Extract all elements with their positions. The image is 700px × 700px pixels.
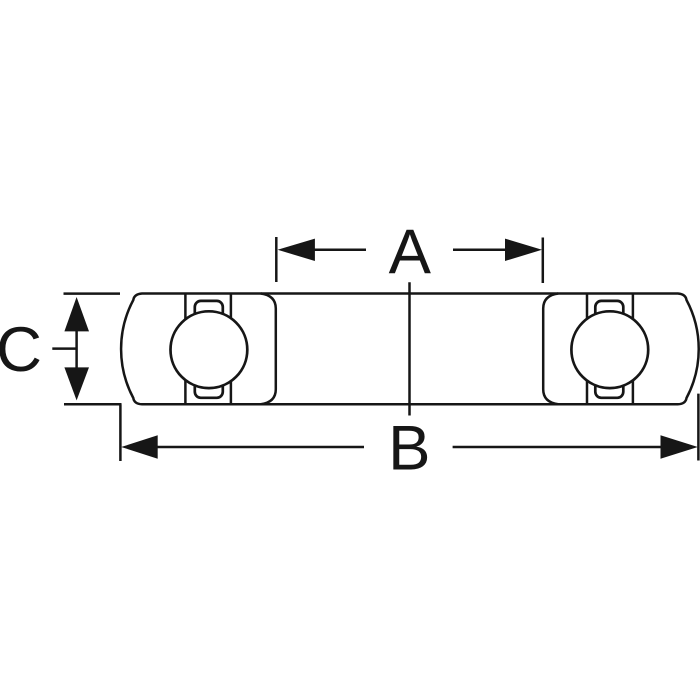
- left ball groove vertical line 1: [184, 294, 187, 405]
- bearing outer ring barrel outline: [121, 294, 699, 405]
- left cartridge inner edge with rounded corners: [261, 294, 276, 405]
- dimension A right arrowhead: [505, 239, 542, 261]
- dimension C up arrowhead: [64, 297, 89, 331]
- dimension A right extension tick: [542, 238, 545, 284]
- dimension C down arrowhead: [64, 367, 89, 400]
- svg-text:C: C: [0, 315, 42, 385]
- vertical center line: [408, 282, 411, 415]
- left ball groove vertical line 2: [230, 294, 233, 405]
- svg-text:B: B: [388, 414, 430, 484]
- dimension A right arrow line: [453, 249, 509, 252]
- dimension B left arrowhead: [121, 435, 158, 458]
- dimension A left arrow line: [311, 249, 366, 252]
- dimension B right extension tick vertical: [697, 394, 700, 461]
- right ball retainer cage: [595, 301, 623, 398]
- left ball retainer cage: [195, 301, 223, 398]
- dimension B line right segment: [453, 446, 663, 449]
- right ball groove vertical line 2: [632, 294, 635, 405]
- dimension C vertical arrow line: [75, 320, 78, 380]
- left ball: [171, 311, 248, 388]
- svg-text:A: A: [389, 217, 432, 287]
- dimension B left extension line horizontal: [64, 403, 122, 406]
- right cartridge inner edge with rounded corners: [543, 294, 558, 405]
- right ball: [571, 311, 648, 388]
- dimension A left arrowhead: [278, 239, 315, 261]
- dimension A left extension tick: [275, 237, 278, 282]
- dimension C top extension line: [64, 292, 121, 295]
- dimension B line left segment: [155, 446, 364, 449]
- dimension B left extension tick vertical: [119, 404, 122, 461]
- dimension C leader tick from letter: [52, 347, 76, 350]
- right ball groove vertical line 1: [586, 294, 589, 405]
- dimension B right arrowhead: [661, 435, 698, 458]
